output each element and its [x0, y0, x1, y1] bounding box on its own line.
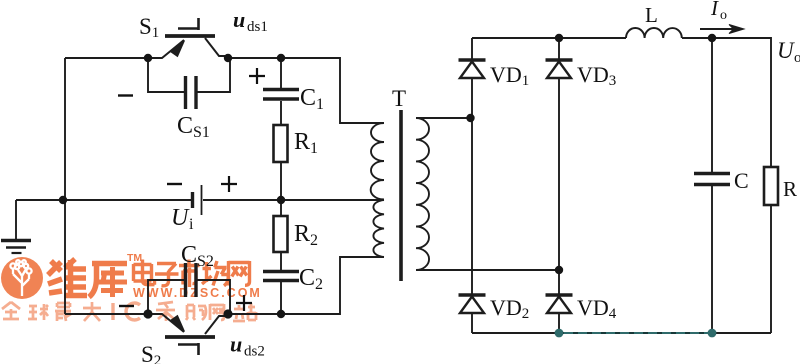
svg-text:C2: C2 [299, 265, 323, 293]
wm 全 [2, 302, 20, 319]
diode VD1 with column [459, 38, 486, 295]
capacitor C [694, 38, 730, 333]
svg-text:ds1: ds1 [247, 19, 268, 35]
watermark row: 全球最大IC采购网站 [2, 302, 256, 321]
svg-text:o: o [720, 8, 727, 23]
node C2 bottom junction [277, 310, 285, 318]
svg-text:i: i [189, 216, 194, 233]
node S2 right junction [223, 309, 232, 318]
plus sign Ui [221, 176, 237, 192]
svg-text:VD4: VD4 [577, 295, 617, 322]
svg-text:TM: TM [127, 252, 142, 264]
node secondary top to VD1 [466, 114, 474, 122]
plus sign C1 [249, 68, 265, 84]
wire bottom right teal tinted [559, 332, 712, 334]
svg-text:U: U [171, 205, 190, 231]
node secondary bottom to VD3 VD4 [555, 266, 563, 274]
node output L to C junction [708, 34, 716, 42]
svg-text:U: U [777, 38, 795, 63]
node S2 left junction [143, 309, 152, 318]
minus sign Ui [167, 183, 182, 185]
node C1 top junction [277, 54, 285, 62]
wire bottom right dark dashes [559, 332, 712, 334]
wire bottom right black [472, 332, 771, 334]
svg-text:R1: R1 [294, 129, 318, 157]
svg-text:VD1: VD1 [490, 62, 529, 89]
node VD4 bottom junction [555, 329, 564, 338]
wm 最 [55, 303, 71, 321]
svg-text:S2: S2 [141, 342, 161, 364]
inductor L [626, 28, 682, 38]
minus sign CS1 [118, 94, 133, 96]
svg-text:CS1: CS1 [177, 113, 210, 141]
node S1 right junction [224, 54, 232, 62]
watermark char 子 [155, 264, 179, 286]
svg-text:u: u [233, 7, 245, 32]
wire mid rail (ground to Ui) [16, 199, 192, 201]
capacitor CS2 [148, 263, 230, 314]
switch S2 [148, 314, 228, 355]
watermark char 场 [202, 261, 228, 286]
resistor R [764, 167, 778, 333]
node ground junction [59, 196, 67, 204]
svg-text:u: u [230, 332, 242, 357]
minus sign CS2 [119, 305, 134, 307]
svg-text:VD2: VD2 [490, 295, 529, 322]
wm 购 [186, 305, 206, 320]
wire S2 right to C2 node to transformer bottom [228, 257, 384, 314]
wm 站 [233, 303, 256, 321]
wm 采 [156, 302, 175, 321]
transformer secondary winding [416, 118, 429, 270]
transformer core [399, 110, 403, 281]
capacitor C1 [263, 58, 299, 125]
wire left rail [64, 58, 66, 314]
svg-text:C1: C1 [300, 85, 324, 113]
svg-text:I: I [710, 0, 719, 20]
wm 球 [28, 304, 48, 320]
diode VD3 with column [546, 38, 573, 295]
wire Ui to center tap [203, 199, 384, 201]
wm I [111, 303, 114, 320]
node VD3 top junction [555, 34, 563, 42]
node S1 left junction [144, 54, 152, 62]
capacitor CS1 [148, 58, 230, 109]
resistor R2 [274, 200, 288, 270]
wire secondary bottom to VD3 column [416, 269, 559, 271]
ground [1, 200, 31, 253]
switch S1 [148, 18, 228, 58]
wire top right rail [472, 37, 626, 39]
svg-text:R2: R2 [294, 221, 318, 249]
transformer T primary winding lower [373, 200, 384, 257]
node R1 R2 midpoint junction [277, 196, 285, 204]
svg-text:CS2: CS2 [181, 242, 214, 270]
wm 网 [210, 304, 224, 320]
watermark logo circle [1, 257, 43, 299]
plus sign CS2 [236, 295, 252, 311]
wire L to output corner [682, 38, 771, 167]
wire secondary top to VD1 column [416, 117, 470, 119]
capacitor C2 [263, 272, 299, 315]
watermark char 网 [229, 261, 250, 286]
svg-text:VD3: VD3 [577, 62, 616, 89]
watermark char 维 [48, 259, 87, 297]
wire top left [65, 57, 148, 59]
watermark char 库 [89, 264, 127, 298]
wm 大 [83, 302, 101, 321]
wm C [126, 303, 140, 320]
watermark char 市 [179, 260, 200, 288]
svg-text:S1: S1 [139, 14, 159, 41]
node C bottom junction [708, 329, 717, 338]
diode VD2 [459, 295, 486, 333]
wire bottom left [65, 313, 148, 315]
svg-text:o: o [794, 50, 800, 66]
svg-text:T: T [392, 86, 406, 111]
watermark char 电 [134, 260, 155, 285]
svg-text:R: R [783, 177, 797, 201]
svg-text:L: L [645, 3, 658, 27]
svg-text:C: C [734, 168, 749, 193]
resistor R1 [274, 125, 288, 200]
wire S1 right node to C1 node to transformer [228, 58, 384, 123]
arrow Io [700, 25, 744, 34]
svg-text:ds2: ds2 [244, 344, 265, 360]
battery Ui [193, 185, 202, 215]
diode VD4 [546, 295, 573, 333]
transformer T primary winding upper [371, 123, 384, 200]
